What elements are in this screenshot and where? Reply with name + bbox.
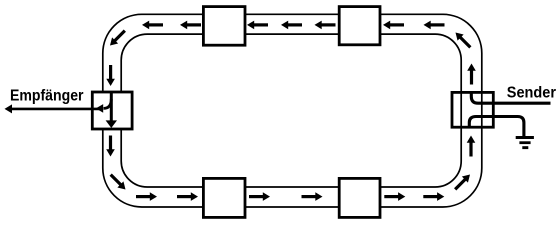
station box bottom-right	[339, 178, 380, 217]
flow arrow bottom 5	[384, 192, 405, 201]
ground bar 2	[519, 141, 530, 144]
flow arrow corner bottom-right (northeast)	[452, 171, 473, 192]
flow arrow right side lower (up)	[467, 136, 476, 157]
receiver output arrowhead	[5, 104, 13, 113]
flow arrow bottom 6	[423, 192, 444, 201]
flow arrow top 1	[142, 21, 163, 30]
svg-text:Empfänger: Empfänger	[10, 88, 84, 105]
station box top-right	[339, 7, 380, 45]
flow arrow right side upper (up)	[467, 64, 476, 85]
flow arrow top 5	[315, 21, 336, 30]
flow arrow corner bottom-left (southeast)	[108, 172, 129, 193]
receiver internal drop arrowhead	[106, 120, 117, 128]
flow arrow corner top-left (southwest)	[107, 28, 128, 49]
sender box	[452, 92, 493, 127]
svg-text:Sender: Sender	[507, 84, 556, 101]
flow arrow bottom 3	[249, 192, 270, 201]
ground bar 3	[522, 146, 528, 149]
ring outer boundary	[103, 14, 482, 207]
flow arrow left side upper (down)	[106, 65, 115, 86]
flow arrow top 6	[383, 21, 404, 30]
sender coupling curve lower + wire to ground	[469, 117, 524, 137]
ring inner boundary	[121, 34, 461, 187]
flow arrow left side lower (down)	[106, 136, 115, 157]
receiver internal drop line	[110, 92, 113, 121]
receiver tap arrowhead	[96, 104, 103, 113]
flow arrow top 4	[281, 21, 302, 30]
receiver output wire	[10, 108, 103, 111]
station box bottom-left	[203, 178, 245, 217]
receiver box (Empfaenger)	[92, 92, 132, 129]
flow arrow corner top-right (northwest)	[452, 29, 473, 50]
flow arrow bottom 1	[136, 192, 157, 201]
ground bar 1	[516, 136, 534, 139]
station box top-left	[203, 7, 245, 46]
flow arrow top 3	[247, 21, 268, 30]
receiver tap curve	[104, 99, 112, 108]
flow arrow bottom 2	[177, 192, 198, 201]
flow arrow bottom 4	[302, 192, 323, 201]
sender injection curve upper + wire to Sender	[471, 92, 550, 103]
flow arrow top 7	[424, 21, 445, 30]
flow arrow top 2	[180, 21, 201, 30]
